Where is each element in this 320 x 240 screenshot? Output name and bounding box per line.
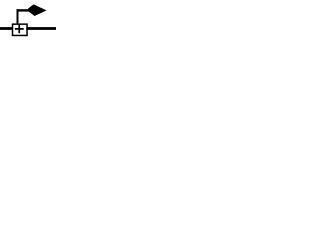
wire W1 left rail <box>0 27 13 30</box>
wire W4 arrow shaft <box>17 9 31 11</box>
plus polarity mark <box>15 25 24 33</box>
wire W2 right rail <box>26 27 56 30</box>
current direction arrow <box>27 4 47 16</box>
wire W3 vertical tap <box>17 9 19 24</box>
DC source box BT1 <box>13 24 28 35</box>
